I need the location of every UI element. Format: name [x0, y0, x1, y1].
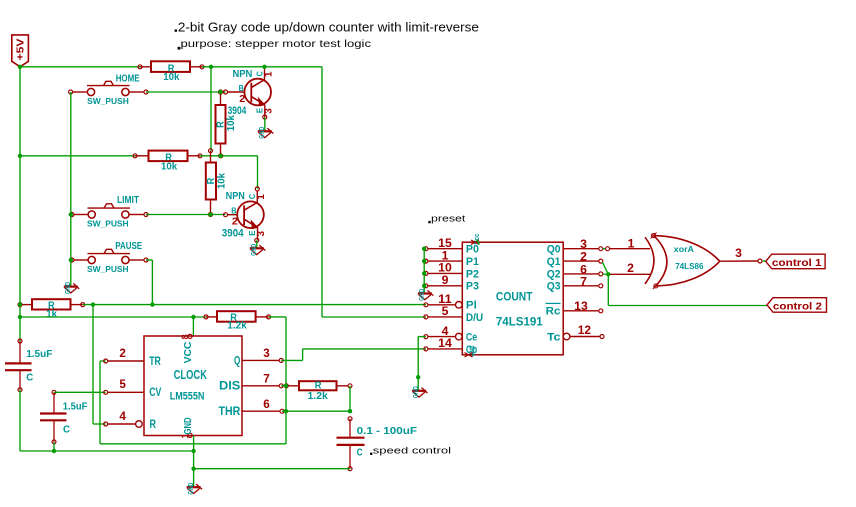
- wire ground rail y=451: [20, 450, 194, 452]
- svg-text:3: 3: [580, 238, 587, 251]
- resistor R7 1.2k: [299, 381, 337, 390]
- wire C2 bottom: [53, 442, 55, 451]
- svg-text:P1: P1: [466, 256, 479, 268]
- svg-text:13: 13: [574, 300, 588, 313]
- svg-text:3904: 3904: [228, 105, 247, 117]
- svg-text:DIS: DIS: [219, 379, 240, 393]
- pin 2 xor in B: [610, 273, 651, 275]
- wire D/U feed y=317: [322, 316, 426, 318]
- svg-text:GND: GND: [259, 127, 266, 139]
- junction preset input: [422, 247, 426, 251]
- transistor Q1 NPN 3904: [244, 79, 271, 106]
- pin 6 THR: [242, 410, 280, 412]
- svg-text:10k: 10k: [161, 161, 178, 172]
- svg-text:1: 1: [628, 238, 635, 251]
- wire xor out stub: [762, 260, 766, 262]
- svg-text:1.2k: 1.2k: [227, 320, 247, 331]
- wire Q2 emitter: [256, 240, 258, 248]
- junction R1 output node: [209, 65, 213, 69]
- junction C2 ground: [52, 449, 56, 453]
- wire LIMIT to Q2 base: [146, 214, 226, 216]
- svg-text:1.2k: 1.2k: [308, 391, 329, 402]
- wire preset row to counter PL: [83, 304, 426, 306]
- capacitor C3 0.1 - 100uF: [349, 419, 351, 438]
- pin 3 Q: [242, 359, 279, 361]
- wire TR-THR link: [100, 443, 286, 445]
- svg-text:+5V: +5V: [16, 38, 27, 60]
- svg-text:R: R: [206, 177, 217, 184]
- wire THR row: [282, 410, 350, 412]
- svg-text:1: 1: [256, 194, 267, 200]
- svg-text:preset: preset: [431, 214, 466, 224]
- junction 555 VCC tap: [191, 315, 195, 319]
- wire HOME to Q1 base: [146, 91, 226, 93]
- global label control 1: [766, 254, 825, 269]
- ground Q1: [258, 130, 272, 132]
- svg-text:2: 2: [627, 262, 634, 275]
- resistor R3 10k: [149, 151, 188, 162]
- svg-text:C: C: [26, 373, 34, 384]
- wire control2 route: [607, 274, 609, 305]
- junction preset input: [422, 271, 426, 275]
- svg-text:GND: GND: [188, 483, 195, 495]
- svg-text:4: 4: [119, 410, 126, 423]
- junction +5V tip: [18, 65, 22, 69]
- svg-text:B: B: [239, 84, 245, 93]
- svg-text:speed control: speed control: [373, 446, 451, 457]
- wire R1 node down to R4: [210, 67, 212, 151]
- svg-text:HOME: HOME: [116, 74, 140, 85]
- wire Ce to ground: [418, 336, 426, 338]
- svg-text:1: 1: [263, 71, 274, 77]
- wire C3 bottom: [194, 468, 350, 470]
- svg-text:SW_PUSH: SW_PUSH: [87, 97, 129, 106]
- svg-text:GND: GND: [413, 386, 420, 398]
- switch SW1 SW_PUSH HOME: [73, 91, 88, 93]
- svg-text:GND: GND: [419, 289, 426, 301]
- resistor R6 1.2k: [217, 311, 256, 322]
- svg-text:1.5uF: 1.5uF: [26, 349, 52, 360]
- pin 15 P0: [428, 248, 462, 250]
- svg-text:NPN: NPN: [233, 69, 253, 80]
- wire C2 top to CV: [54, 391, 106, 393]
- svg-text:8: 8: [180, 334, 190, 339]
- wire C1 bottom: [19, 390, 21, 451]
- svg-text:12: 12: [578, 324, 591, 337]
- wire row2 to Q2 collector: [200, 155, 258, 157]
- wire 555 GND column: [193, 436, 195, 488]
- ground Q2: [250, 247, 264, 249]
- svg-text:C: C: [63, 425, 71, 436]
- svg-text:2: 2: [580, 251, 587, 264]
- svg-text:CLOCK: CLOCK: [174, 367, 208, 382]
- svg-text:purpose: stepper motor test lo: purpose: stepper motor test logic: [181, 39, 372, 50]
- pin 2 TR: [108, 360, 144, 362]
- svg-text:LIMIT: LIMIT: [117, 195, 140, 206]
- svg-text:P3: P3: [466, 281, 479, 293]
- switch SW3 SW_PUSH PAUSE: [74, 259, 88, 261]
- pin 7 DIS: [242, 385, 279, 387]
- svg-text:COUNT: COUNT: [496, 290, 533, 304]
- svg-text:2: 2: [239, 94, 245, 105]
- junction Ce ground wire: [416, 375, 420, 379]
- junction R2 bottom: [219, 154, 223, 158]
- svg-text:Pl: Pl: [466, 300, 477, 312]
- pin 2 Q1: [563, 260, 599, 262]
- svg-text:TR: TR: [149, 354, 161, 368]
- junction R5 left on rail: [18, 302, 22, 306]
- svg-text:NPN: NPN: [226, 191, 245, 202]
- svg-text:3904: 3904: [222, 227, 244, 239]
- svg-text:THR: THR: [219, 404, 241, 418]
- pin 11 Pl: [456, 302, 463, 309]
- ground 555: [187, 486, 201, 488]
- junction rail row2: [18, 154, 22, 158]
- junction LIMIT left: [69, 212, 73, 216]
- svg-text:15: 15: [438, 237, 452, 250]
- note speed control: [370, 453, 372, 455]
- timer U2 LM555N CLOCK: [144, 336, 242, 436]
- pin 12 Tc: [563, 333, 570, 340]
- junction feedback column at THR: [284, 409, 288, 413]
- xor gate U1A 74LS86 xorA: [645, 237, 654, 284]
- resistor R2 10k vertical: [216, 105, 226, 144]
- svg-text:5: 5: [442, 305, 449, 318]
- resistor R1 10k: [151, 61, 190, 72]
- wire DIS stub: [281, 385, 286, 387]
- junction rail y=317: [18, 315, 22, 319]
- junction node x=93: [91, 302, 95, 306]
- wire Q1 emitter: [264, 117, 266, 131]
- pin 13 Rc: [563, 310, 599, 312]
- junction R7/C3: [348, 409, 352, 413]
- pin 4 Ce: [456, 333, 463, 340]
- pin 7 Q3: [563, 285, 599, 287]
- svg-text:10k: 10k: [216, 172, 227, 189]
- pin 5 CV: [108, 391, 144, 393]
- wire PAUSE output: [146, 259, 152, 261]
- wire top rail left segment: [20, 66, 140, 68]
- wire top rail right of R1: [202, 66, 322, 68]
- svg-text:2: 2: [119, 347, 126, 360]
- svg-text:Tc: Tc: [547, 331, 561, 343]
- wire +5V rail vertical: [19, 67, 21, 341]
- svg-text:B: B: [231, 206, 237, 215]
- svg-text:Q2: Q2: [547, 269, 561, 281]
- svg-text:C: C: [357, 447, 363, 458]
- power flag +5V: [12, 35, 29, 67]
- pin 3 xor out: [720, 260, 758, 262]
- resistor R5 1k: [32, 299, 71, 309]
- svg-text:Q0: Q0: [547, 244, 561, 256]
- svg-text:14: 14: [438, 337, 452, 350]
- svg-text:LM555N: LM555N: [170, 391, 205, 403]
- junction Q1 collector: [262, 65, 266, 69]
- svg-text:GND: GND: [251, 244, 258, 256]
- junction PAUSE left: [69, 258, 73, 262]
- ground preset inputs: [418, 292, 432, 294]
- junction preset input: [422, 259, 426, 263]
- svg-text:CV: CV: [149, 385, 161, 399]
- wire D/U rail from +5V rail: [20, 316, 206, 318]
- junction xor in B node: [606, 272, 610, 276]
- svg-text:10k: 10k: [163, 72, 180, 83]
- svg-text:D/U: D/U: [466, 312, 483, 324]
- wire Q0 to xor: [603, 248, 606, 250]
- svg-text:control 2: control 2: [773, 301, 822, 312]
- svg-text:6: 6: [263, 398, 270, 411]
- pin 1 xor in A: [610, 248, 650, 250]
- pin 14 Cp: [428, 348, 462, 350]
- svg-text:xorA: xorA: [674, 245, 694, 254]
- svg-text:SW_PUSH: SW_PUSH: [87, 265, 129, 274]
- pin 4 R: [136, 421, 143, 428]
- svg-text:Q3: Q3: [547, 281, 561, 293]
- junction PAUSE column join: [150, 302, 154, 306]
- svg-text:R: R: [150, 417, 157, 431]
- junction preset input: [422, 284, 426, 288]
- pin 1 P1: [428, 260, 462, 262]
- svg-text:3: 3: [263, 347, 270, 360]
- svg-text:SW_PUSH: SW_PUSH: [87, 219, 129, 228]
- note title line2: [178, 47, 181, 50]
- pin 1 GND: [188, 433, 192, 437]
- svg-text:Rc: Rc: [546, 306, 561, 318]
- pin 6 Q2: [563, 273, 599, 275]
- global label control 2: [767, 298, 827, 313]
- wire collector net down x=322: [321, 67, 323, 317]
- svg-text:3: 3: [256, 231, 267, 237]
- svg-text:1.5uF: 1.5uF: [63, 402, 88, 413]
- svg-text:5: 5: [119, 378, 126, 391]
- pin 5 D/U: [428, 316, 462, 318]
- note preset: [428, 221, 430, 223]
- svg-text:Q1: Q1: [547, 256, 561, 268]
- junction C3 ground: [191, 467, 195, 471]
- svg-text:VCC: VCC: [183, 341, 194, 363]
- wire switch column x=70.8: [70, 92, 72, 287]
- svg-text:GND: GND: [183, 418, 194, 435]
- wire Q2 stub: [603, 273, 606, 275]
- svg-text:7: 7: [580, 275, 587, 288]
- svg-text:1k: 1k: [46, 309, 57, 320]
- xor hidden power marks: [652, 234, 656, 238]
- junction R2 top: [218, 90, 222, 94]
- svg-text:9: 9: [442, 274, 449, 287]
- switch SW2 SW_PUSH LIMIT: [74, 214, 88, 216]
- ground Ce: [412, 390, 426, 392]
- ground switch column: [64, 286, 78, 288]
- svg-text:Q: Q: [234, 353, 240, 367]
- pin 10 P2: [428, 272, 462, 274]
- svg-text:PAUSE: PAUSE: [115, 241, 142, 252]
- svg-text:7: 7: [263, 373, 270, 386]
- transistor Q2 NPN 3904: [237, 201, 264, 228]
- wire row2 left: [20, 155, 135, 157]
- junction R7 left: [284, 384, 288, 388]
- wire 555 Q to counter CP: [281, 359, 302, 361]
- svg-text:10: 10: [438, 262, 452, 275]
- svg-text:3: 3: [263, 108, 274, 114]
- wire Q1 diagonal: [602, 262, 608, 274]
- junction R4 bottom: [208, 212, 212, 216]
- resistor R4 10k vertical: [206, 163, 216, 200]
- wire R6 right to feedback column: [269, 316, 287, 318]
- wire R7 to THR: [349, 386, 351, 411]
- wire reset feed x=93: [92, 305, 94, 424]
- wire preset inputs column: [423, 249, 425, 294]
- pin 3 Q0: [563, 248, 599, 250]
- capacitor C1 1.5uF: [19, 341, 21, 363]
- svg-text:2-bit Gray code up/down counte: 2-bit Gray code up/down counter with lim…: [178, 20, 479, 34]
- svg-text:4: 4: [442, 325, 449, 338]
- pin 9 P3: [428, 285, 462, 287]
- svg-text:GND: GND: [65, 282, 72, 294]
- svg-text:3: 3: [735, 247, 742, 260]
- counter U3 74LS191 COUNT: [462, 242, 563, 355]
- note title line1: [175, 29, 177, 31]
- capacitor C2 1.5uF: [53, 392, 55, 413]
- svg-text:2: 2: [232, 217, 238, 228]
- svg-text:control 1: control 1: [772, 258, 822, 269]
- svg-text:P2: P2: [466, 268, 479, 280]
- wire 555 VCC drop: [192, 317, 194, 336]
- svg-text:74LS86: 74LS86: [675, 262, 704, 271]
- svg-text:11: 11: [438, 293, 452, 306]
- svg-text:74LS191: 74LS191: [496, 315, 543, 329]
- junction ground rail: [191, 449, 195, 453]
- svg-text:0.1 - 100uF: 0.1 - 100uF: [357, 426, 417, 437]
- svg-text:Ce: Ce: [466, 332, 477, 344]
- svg-text:1: 1: [442, 249, 449, 262]
- pin 8 VCC: [188, 334, 192, 338]
